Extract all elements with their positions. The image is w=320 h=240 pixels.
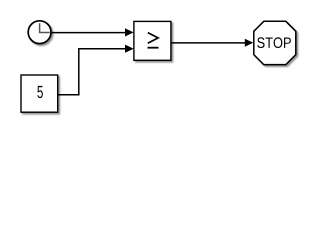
stop block octagon xyxy=(254,21,296,64)
wire clock to relational op xyxy=(51,32,125,34)
wire constant to relational op xyxy=(58,49,125,95)
clock hands xyxy=(40,23,50,32)
relational operator block xyxy=(134,21,171,60)
arrowhead input 2 xyxy=(125,45,134,53)
value label 5 xyxy=(37,86,43,98)
operator glyph >= xyxy=(148,33,159,48)
constant block C=5 xyxy=(21,75,58,112)
STOP label xyxy=(257,37,291,48)
clock block xyxy=(28,21,51,44)
arrowhead stop input xyxy=(245,39,253,47)
arrowhead input 1 xyxy=(125,28,134,36)
wire relational op to stop xyxy=(171,42,245,44)
